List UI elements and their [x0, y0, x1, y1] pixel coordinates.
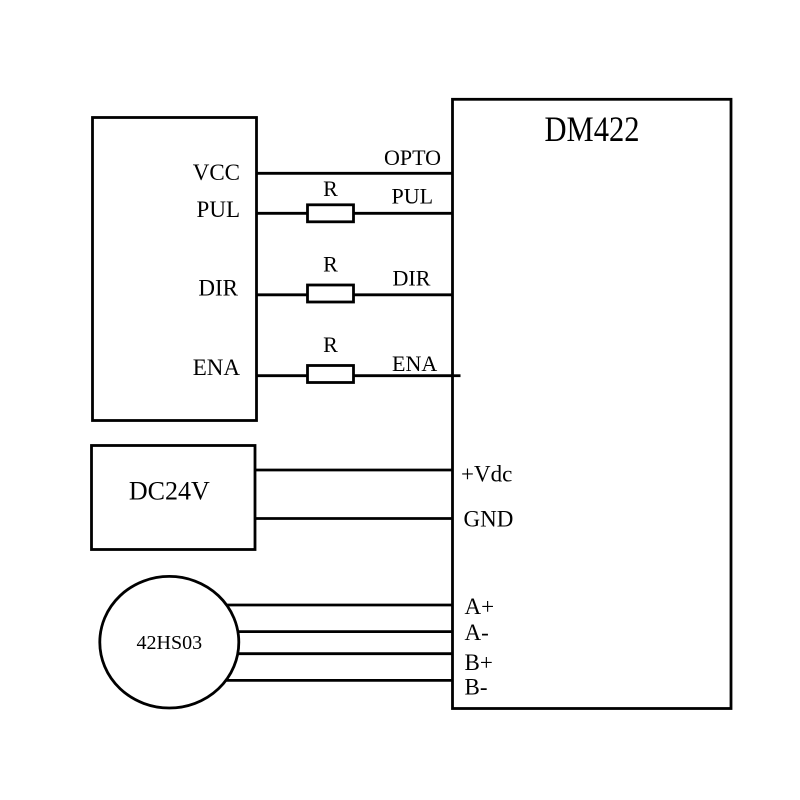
wire ENA stub into DM422 — [452, 374, 461, 377]
motor M1 42HS03 — [100, 576, 239, 708]
svg-text:+Vdc: +Vdc — [461, 461, 512, 486]
svg-text:R: R — [323, 252, 338, 277]
svg-text:PUL: PUL — [197, 197, 240, 222]
svg-text:R: R — [323, 176, 338, 201]
wire PUL — [250, 212, 453, 215]
svg-text:A+: A+ — [465, 594, 495, 619]
wire VCC to OPTO — [250, 172, 453, 175]
wire B+ — [169, 652, 453, 655]
wire B- — [169, 679, 453, 682]
resistor R2 — [308, 285, 354, 302]
wire A+ — [169, 604, 453, 607]
svg-text:DM422: DM422 — [545, 109, 640, 149]
resistor R1 — [308, 205, 354, 222]
wire +Vdc — [250, 469, 453, 472]
controller box — [93, 118, 257, 421]
wire DIR — [250, 293, 453, 296]
svg-text:DIR: DIR — [393, 266, 431, 291]
resistor R3 — [308, 366, 354, 383]
svg-text:42HS03: 42HS03 — [137, 632, 203, 654]
svg-text:ENA: ENA — [392, 351, 437, 376]
svg-text:GND: GND — [464, 506, 514, 531]
svg-text:PUL: PUL — [392, 184, 434, 209]
svg-text:DC24V: DC24V — [129, 477, 210, 506]
svg-text:B+: B+ — [465, 650, 493, 675]
svg-text:B-: B- — [465, 675, 488, 700]
driver box U1 DM422 — [453, 99, 732, 708]
power supply box DC24V — [92, 446, 256, 550]
wire GND — [250, 517, 453, 520]
svg-text:A-: A- — [465, 620, 489, 645]
svg-text:ENA: ENA — [193, 355, 241, 380]
wire ENA — [250, 374, 461, 377]
svg-text:OPTO: OPTO — [384, 145, 441, 170]
wire A- — [169, 630, 453, 633]
svg-text:R: R — [323, 332, 338, 357]
svg-text:DIR: DIR — [198, 276, 238, 301]
svg-text:VCC: VCC — [193, 160, 240, 185]
